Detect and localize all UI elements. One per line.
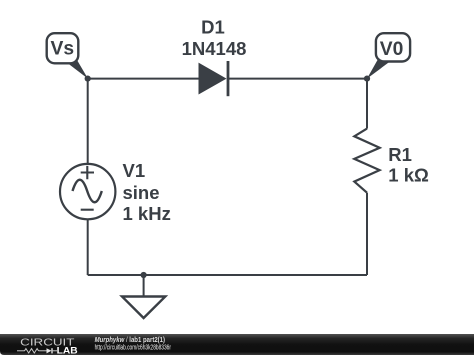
logo wire right	[53, 350, 57, 352]
svg-text:D1: D1	[201, 17, 225, 38]
logo wire middle	[39, 350, 47, 352]
wire right vertical upper: V0 node to R1 top	[366, 79, 368, 129]
node V0 callout tail	[367, 60, 392, 79]
svg-text:LAB: LAB	[57, 345, 78, 355]
ground stub wire	[143, 275, 145, 297]
svg-text:Vs: Vs	[51, 39, 75, 60]
footer black bar	[0, 334, 474, 355]
voltage source V1 plus sign	[81, 166, 94, 179]
svg-text:V0: V0	[380, 39, 404, 60]
diode D1 cathode bar	[227, 61, 230, 96]
diode D1 triangle (anode)	[199, 64, 226, 94]
junction dot at ground tap	[141, 272, 147, 278]
logo diode symbol	[47, 348, 52, 353]
wire top left: Vs node to diode anode	[88, 78, 200, 80]
svg-text:1 kΩ: 1 kΩ	[388, 165, 429, 186]
svg-text:http://circuitlab.com/c6h3k28b: http://circuitlab.com/c6h3k28b8336r	[95, 342, 172, 351]
node Vs callout tail	[64, 60, 89, 79]
wire right vertical lower: R1 bottom to bottom rail	[366, 193, 368, 275]
svg-text:V1: V1	[123, 160, 146, 181]
svg-text:R1: R1	[388, 144, 412, 165]
node V0 box	[376, 33, 410, 61]
voltage source V1 minus sign	[81, 209, 94, 211]
resistor R1 zigzag	[354, 129, 379, 193]
logo resistor zigzag	[25, 349, 39, 353]
wire left vertical upper: Vs node down to V1 top	[87, 79, 89, 164]
junction dot at V0 node	[364, 76, 370, 82]
voltage source V1 circle	[60, 164, 115, 219]
logo squiggle wire left	[17, 350, 25, 352]
wire bottom rail	[88, 274, 367, 276]
wire left vertical lower: V1 bottom to bottom rail	[87, 220, 89, 276]
svg-text:sine: sine	[123, 182, 160, 203]
svg-text:1N4148: 1N4148	[182, 38, 247, 59]
svg-text:1 kHz: 1 kHz	[123, 203, 171, 224]
voltage source V1 sine wave	[73, 180, 102, 203]
junction dot at Vs node	[85, 76, 91, 82]
node Vs box	[47, 33, 79, 63]
ground symbol triangle	[122, 297, 165, 319]
wire top right: diode cathode to V0 node	[228, 78, 367, 80]
